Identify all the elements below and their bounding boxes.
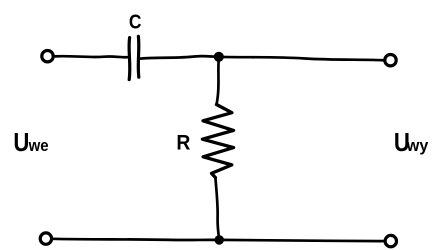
terminal (output bottom-right) [385,235,396,246]
wire: input top-left terminal to capacitor C [54,56,128,57]
wire: node B to output bottom-right terminal [219,240,384,241]
terminal (output top-right) [385,55,396,66]
svg-text:R: R [176,131,190,155]
svg-text:we: we [28,136,49,155]
node A (top junction dot) [214,52,224,62]
capacitor C left plate [127,38,131,80]
terminal (input bottom-left) [40,233,51,244]
wire: input bottom-left terminal to node B [52,239,214,240]
wire: node A to output top-right terminal [219,57,385,61]
svg-text:C: C [129,12,142,34]
wire: node A down to resistor R [217,58,219,105]
wire: capacitor C to node A [141,56,219,59]
svg-text:wy: wy [406,136,429,155]
svg-text:U: U [13,127,29,157]
resistor R (zigzag) [202,105,233,178]
capacitor C right plate [137,36,141,77]
node B (bottom junction dot) [214,235,224,245]
wire: resistor R to node B [215,178,219,240]
terminal (input top-left) [42,51,53,62]
